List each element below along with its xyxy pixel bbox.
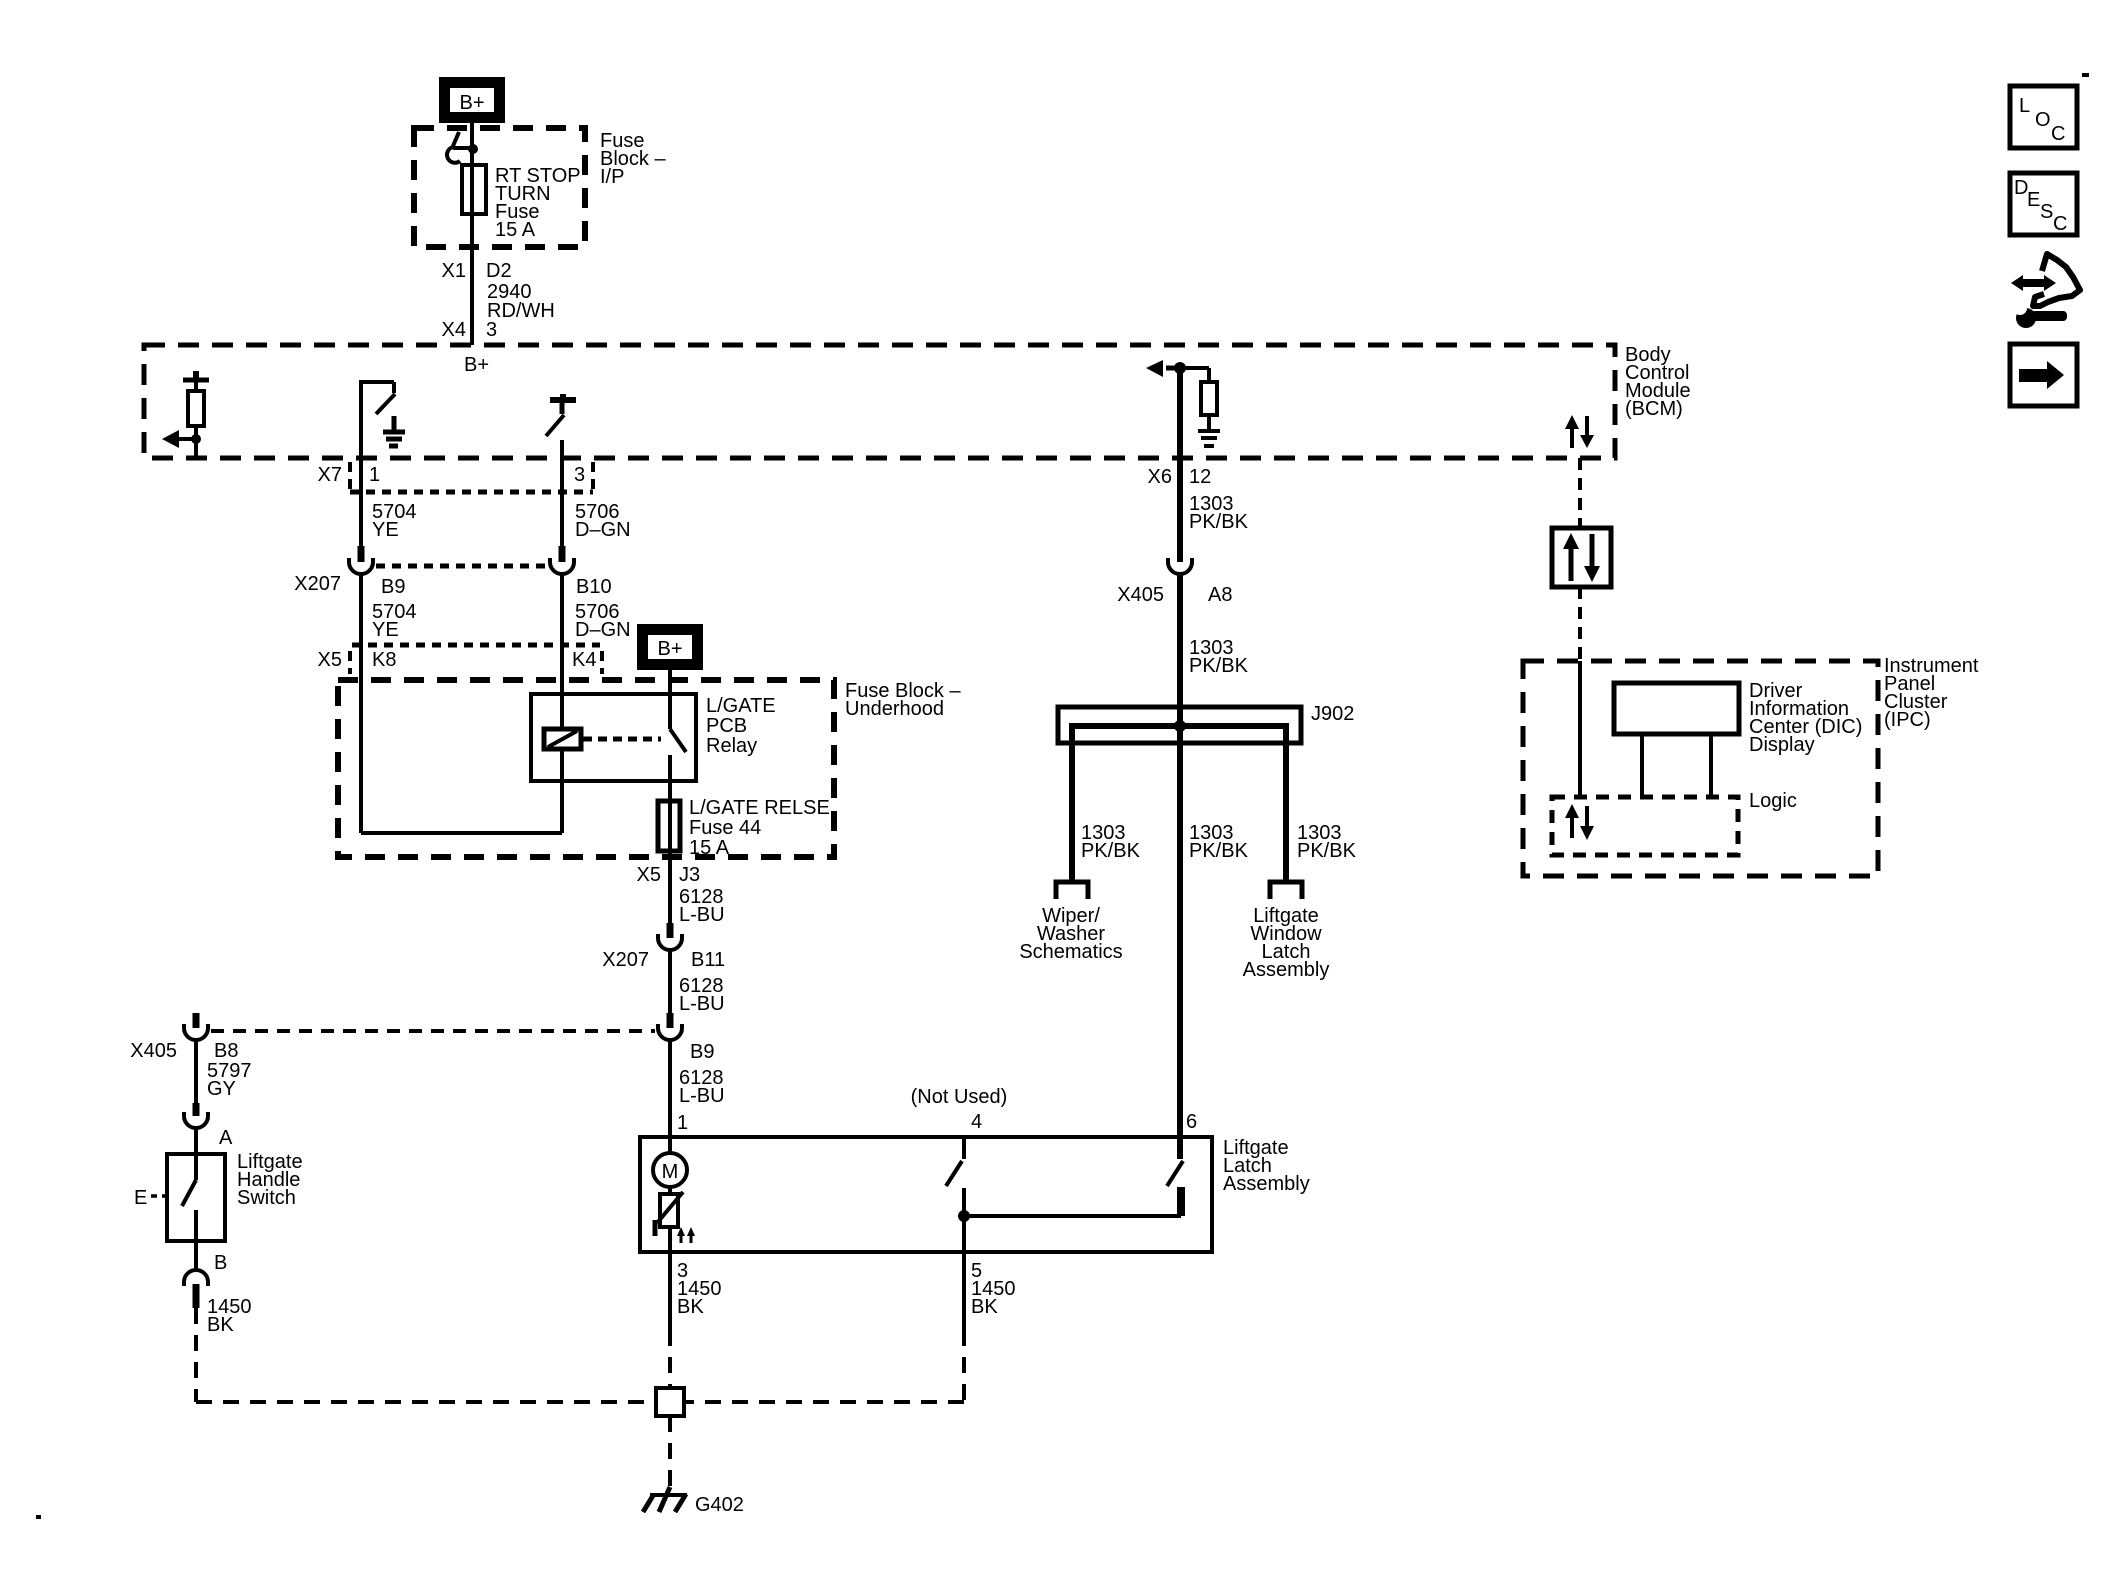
connector X5 (fuse block underhood) [318,645,602,674]
svg-text:K4: K4 [572,649,596,671]
wires DIC to logic [1642,734,1711,797]
body control module BCM (dashed box) [144,345,1615,458]
svg-text:3: 3 [574,464,585,486]
ground (BCM internal) [383,416,405,446]
svg-text:BK: BK [207,1314,234,1336]
svg-text:PCB: PCB [706,715,747,737]
BCM label [1625,344,1691,420]
svg-text:L/GATE RELSE: L/GATE RELSE [689,797,830,819]
wire to ground G402 [668,1416,672,1492]
power symbol B+ (relay feed) [639,626,701,668]
svg-text:Assembly: Assembly [1243,959,1330,981]
svg-text:D2: D2 [486,260,512,282]
svg-text:S: S [2040,201,2053,223]
serial data link BCM to IPC (dashed) [1578,458,1582,528]
wire 2940 RD/WH fuse to BCM [442,214,555,345]
svg-text:GY: GY [207,1078,236,1100]
svg-text:X405: X405 [130,1040,177,1062]
instrument panel cluster IPC (dashed box) [1523,661,1878,876]
PTC arrows [677,1227,695,1243]
svg-text:X207: X207 [602,949,649,971]
svg-text:B+: B+ [464,354,489,376]
connector at handle switch pin A [184,1103,233,1154]
BCM node with left arrow (X6-12 driver) [1146,360,1186,377]
icon DESC box [2010,173,2077,235]
svg-text:12: 12 [1189,466,1211,488]
fuse L/GATE RELSE Fuse 44 15 A [658,797,830,859]
logic serial data arrows [1565,804,1594,840]
svg-text:X7: X7 [318,464,342,486]
svg-text:B: B [214,1252,227,1274]
svg-text:X405: X405 [1117,584,1164,606]
connector X405 pins B8/B9 [130,1013,714,1063]
wire 1303 PK/BK (X6-12 to X405) heavy [1148,368,1249,562]
wire 5706 D-GN (X7-3 to X207) [562,458,631,546]
svg-text:B9: B9 [690,1041,714,1063]
relay coil [544,645,581,749]
svg-text:B11: B11 [691,949,725,971]
svg-text:G402: G402 [695,1494,744,1516]
svg-text:1: 1 [677,1112,688,1134]
svg-text:L/GATE: L/GATE [706,695,776,717]
svg-text:A: A [219,1127,233,1149]
wire 1303 PK/BK center label [1189,822,1249,862]
svg-text:L-BU: L-BU [679,1085,725,1107]
svg-text:K8: K8 [372,649,396,671]
svg-text:O: O [2035,109,2051,131]
BCM internal resistor (left, output driver) [183,371,209,458]
svg-text:X5: X5 [318,649,342,671]
svg-text:B9: B9 [381,576,405,598]
wire 1450 BK (latch pin 3 to ground) [670,1251,722,1388]
svg-text:C: C [2053,213,2067,235]
connector X405 pin A8 [1117,558,1232,606]
svg-text:(IPC): (IPC) [1884,709,1931,731]
fuse block - I/P (dashed box) [414,128,585,247]
ground (BCM internal, right) [1198,431,1220,446]
svg-text:L-BU: L-BU [679,993,725,1015]
svg-text:J902: J902 [1311,703,1354,725]
connector at handle switch pin B [184,1241,227,1308]
connector X207 pin B11 [602,923,725,971]
svg-text:YE: YE [372,519,399,541]
wire 1450 BK (switch to ground splice) [196,1296,656,1402]
wire 6128 L-BU (X405-B9 to latch pin 1) [670,1040,725,1137]
svg-text:(BCM): (BCM) [1625,398,1683,420]
svg-text:B+: B+ [459,92,484,114]
svg-text:E: E [2027,189,2040,211]
wire B+ to relay [668,668,672,694]
wire serial data inside IPC [1578,661,1582,797]
svg-text:X4: X4 [442,319,466,341]
icon forward arrow box [2010,344,2077,406]
wire 1303 PK/BK to wiper/washer [1019,822,1140,963]
svg-text:B+: B+ [657,638,682,660]
connector X207 pins B9/B10 [294,546,611,598]
relay coil-contact dashed link [583,737,661,742]
svg-text:L-BU: L-BU [679,904,725,926]
serial data link to IPC (dashed) [1578,587,1582,661]
stray mark top right [2082,73,2089,77]
ground splice connector (square) [656,1388,684,1416]
svg-text:B10: B10 [576,576,612,598]
BCM serial data arrows [1565,415,1594,448]
splice pack J902 [1058,703,1354,882]
svg-text:I/P: I/P [600,166,624,188]
svg-text:Assembly: Assembly [1223,1173,1310,1195]
latch switch pin 4 (not used) [911,1086,1008,1251]
fuse holder clip terminal [447,132,478,163]
BCM internal switch with battery contact (drives X7-3) [546,394,576,458]
fuse block - underhood (dashed box) [338,680,834,857]
fuse RT STOP TURN 15 A [462,165,581,241]
svg-text:1: 1 [369,464,380,486]
wire 5706 D-GN (X207 to X5-K4) [562,574,631,729]
wire 6128 L-BU (X5-J3 to X207) [637,857,725,926]
svg-text:PK/BK: PK/BK [1189,655,1249,677]
BCM internal switch to ground (drives X7-1) [359,380,395,458]
wire 1450 BK (latch pin 5 to ground splice) [684,1251,1016,1402]
svg-text:X207: X207 [294,573,341,595]
liftgate latch assembly (box) [640,1137,1212,1252]
svg-text:Logic: Logic [1749,790,1797,812]
svg-text:3: 3 [486,319,497,341]
wire 1303 PK/BK to liftgate window latch [1243,822,1357,981]
node junction with left continuation arrow [162,430,201,448]
relay contact blade [670,694,686,801]
svg-text:B8: B8 [214,1040,238,1062]
serial data symbol (box with arrows) [1552,528,1611,587]
svg-text:Schematics: Schematics [1019,941,1122,963]
svg-text:A8: A8 [1208,584,1232,606]
wire 5797 GY (X405-B8 to switch) [196,1040,252,1103]
ground G402 [643,1487,744,1516]
svg-text:PK/BK: PK/BK [1189,511,1249,533]
wire 1303 PK/BK (X405 to J902) heavy [1180,574,1249,1140]
wire relay coil return to X5-K8 [361,749,562,833]
svg-text:C: C [2051,123,2065,145]
junction node pin4/pin6 [958,1210,1181,1222]
svg-text:15 A: 15 A [689,837,730,859]
driver information center DIC display (box) [1614,680,1862,756]
svg-text:L: L [2019,95,2030,117]
svg-text:E: E [134,1187,147,1209]
svg-text:Switch: Switch [237,1187,296,1209]
liftgate handle switch (box) [167,1151,303,1241]
stray mark bottom left [36,1515,41,1519]
wire 5704 YE (X207 to X5-K8) [361,574,417,833]
svg-text:PK/BK: PK/BK [1297,840,1357,862]
svg-text:D–GN: D–GN [575,619,631,641]
thermal protector (PTC) [655,1192,683,1251]
label fuse block I/P [600,130,666,188]
logic block (dashed box) [1552,790,1797,855]
icon LOC box [2010,86,2077,148]
icon vehicle service (arrows, outline, wrench) [2011,254,2080,328]
svg-text:(Not Used): (Not Used) [911,1086,1008,1108]
power symbol B+ (battery feed, top) [441,79,503,121]
relay L/GATE PCB (box) [531,694,696,781]
motor M (latch release) [653,1137,687,1193]
connector X7 (BCM) [318,462,593,492]
svg-text:YE: YE [372,619,399,641]
BCM internal pull-up resistor [1180,368,1217,429]
latch switch pin 6 [1167,1111,1197,1216]
svg-text:X5: X5 [637,864,661,886]
node E (switch actuation) [134,1187,167,1209]
svg-text:Display: Display [1749,734,1815,756]
svg-text:PK/BK: PK/BK [1189,840,1249,862]
svg-text:J3: J3 [679,864,700,886]
svg-text:RD/WH: RD/WH [487,300,555,322]
svg-text:Fuse 44: Fuse 44 [689,817,761,839]
svg-text:D–GN: D–GN [575,519,631,541]
svg-text:Relay: Relay [706,735,757,757]
wire 6128 L-BU (X207 to X405) [670,950,725,1015]
wire B+ to fuse [470,121,474,165]
svg-text:X6: X6 [1148,466,1172,488]
svg-text:Underhood: Underhood [845,698,944,720]
wire 5704 YE (X7-1 to X207) [361,458,417,546]
svg-text:BK: BK [677,1296,704,1318]
svg-text:4: 4 [971,1111,982,1133]
svg-text:15 A: 15 A [495,219,536,241]
svg-text:BK: BK [971,1296,998,1318]
svg-text:6: 6 [1186,1111,1197,1133]
svg-text:PK/BK: PK/BK [1081,840,1141,862]
svg-text:M: M [662,1161,679,1183]
svg-text:X1: X1 [442,260,466,282]
